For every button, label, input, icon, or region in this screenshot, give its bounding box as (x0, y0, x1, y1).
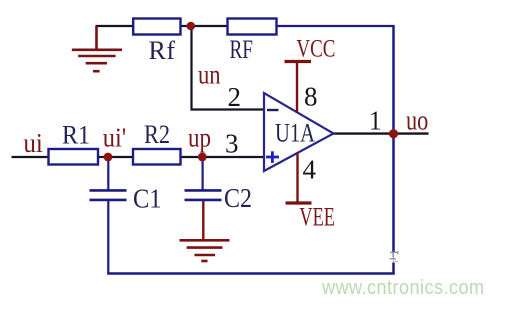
svg-text:ui: ui (23, 127, 43, 158)
node ui' (104, 153, 113, 162)
wire C2 down to ground (202, 200, 204, 240)
resistor R2 (133, 149, 181, 165)
wire ground to Rf (96, 25, 134, 27)
wire right rail lower segment (392, 263, 395, 274)
op-amp plus symbol (266, 156, 279, 159)
node top (Rf/RF junction) (187, 22, 196, 31)
svg-text:U1A: U1A (275, 118, 315, 147)
svg-text:up: up (188, 122, 211, 153)
op-amp minus symbol (267, 109, 279, 111)
VEE supply pin 4 (286, 201, 312, 204)
svg-text:2: 2 (228, 82, 242, 112)
svg-text:C2: C2 (224, 183, 252, 213)
svg-text:VCC: VCC (296, 36, 335, 63)
svg-text:un: un (198, 59, 221, 90)
op-amp U1A (264, 93, 334, 171)
node up (198, 153, 207, 162)
svg-text:VEE: VEE (299, 203, 335, 232)
svg-text:C1: C1 (133, 184, 162, 214)
svg-text:R1: R1 (62, 121, 90, 150)
ground (below C2) (180, 240, 230, 261)
watermark artifact on right rail (390, 251, 399, 263)
wire R1 to node ui' (98, 156, 133, 158)
wire op-amp output to node uo (333, 132, 429, 134)
capacitor C2 (185, 189, 222, 192)
svg-text:uo: uo (406, 106, 428, 137)
VCC supply pin 8 (285, 60, 312, 63)
svg-text:4: 4 (303, 155, 317, 185)
svg-text:1: 1 (369, 106, 382, 136)
wire node ui' down to C1 (107, 157, 109, 190)
wire input ui to R1 (12, 156, 50, 158)
ground (top left) (72, 26, 122, 71)
svg-text:Rf: Rf (149, 36, 176, 65)
capacitor C1 (90, 189, 127, 192)
wire right rail upper segment (392, 26, 395, 252)
resistor RF (228, 19, 277, 35)
wire C1 down to bottom rail (107, 200, 109, 274)
wire RF to top right corner (277, 25, 395, 27)
wire Rf to top node (179, 25, 192, 27)
wire R2 to op-amp noninverting input (181, 156, 265, 158)
svg-text:8: 8 (304, 82, 318, 112)
svg-text:RF: RF (230, 35, 254, 64)
wire top node down to inverting input (net un) (192, 26, 265, 110)
wire top node to RF (192, 25, 228, 27)
svg-text:ui': ui' (103, 121, 127, 152)
wire node up down to C2 (202, 157, 204, 190)
svg-text:3: 3 (225, 129, 239, 159)
svg-text:R2: R2 (144, 120, 170, 149)
node uo (output junction) (389, 129, 398, 138)
wire bottom rail (107, 272, 395, 275)
resistor Rf (133, 19, 180, 35)
resistor R1 (49, 149, 99, 165)
svg-text:www.cntronics.com: www.cntronics.com (321, 276, 484, 299)
